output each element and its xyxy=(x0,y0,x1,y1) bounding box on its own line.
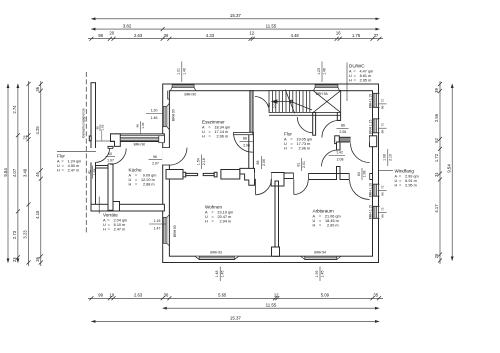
BRH labels xyxy=(134,92,373,254)
room label Wohnen xyxy=(205,204,233,223)
svg-text:A = 18.34 qm: A = 18.34 qm xyxy=(202,126,230,130)
svg-text:Flur: Flur xyxy=(57,153,65,158)
svg-text:15.37: 15.37 xyxy=(230,316,242,321)
svg-text:12: 12 xyxy=(249,31,254,36)
svg-text:1.45: 1.45 xyxy=(221,271,225,278)
svg-text:2.74: 2.74 xyxy=(12,105,17,114)
entry flur top thin wall xyxy=(96,140,111,142)
svg-text:H = 2.88 m: H = 2.88 m xyxy=(129,182,155,186)
dimension chain left D (detail) xyxy=(35,81,43,266)
svg-text:72: 72 xyxy=(380,207,384,211)
pilaster on west wall xyxy=(89,136,91,141)
window W3 Esszimmer west xyxy=(163,104,169,130)
svg-text:U = 20.47 m: U = 20.47 m xyxy=(205,215,231,219)
opening Flur to Arbeitsraum xyxy=(294,172,308,180)
svg-text:80: 80 xyxy=(95,126,99,130)
wall Flur south segment b xyxy=(309,174,337,180)
svg-text:U = 17.73 m: U = 17.73 m xyxy=(284,142,310,146)
door Esszimmer to Flur (upper) arc xyxy=(255,96,270,111)
svg-text:H = 2.95 m: H = 2.95 m xyxy=(349,78,371,82)
svg-text:5.65: 5.65 xyxy=(218,293,227,298)
opening Kueche to Esszimmer xyxy=(162,148,170,166)
door DU/WC south into Windfang arc xyxy=(351,143,370,162)
svg-text:BRH 1.15: BRH 1.15 xyxy=(369,205,373,219)
door arcs and leaves xyxy=(95,96,370,199)
dims door Esszimmer upper xyxy=(267,98,277,112)
opening entry door west wall xyxy=(91,148,97,162)
svg-text:1.23: 1.23 xyxy=(317,68,321,75)
svg-text:1.15: 1.15 xyxy=(154,219,161,223)
svg-text:2.08: 2.08 xyxy=(337,158,344,162)
svg-text:3.82: 3.82 xyxy=(123,23,132,28)
svg-text:2.06: 2.06 xyxy=(243,143,250,147)
wall DU/WC west xyxy=(337,91,340,121)
window W8 DU/WC east 1 xyxy=(373,93,380,107)
dims window W11 exterior xyxy=(378,207,387,218)
wall Windfang south segments xyxy=(340,174,349,180)
room label Esszimmer xyxy=(202,119,230,138)
svg-text:3.23: 3.23 xyxy=(23,230,28,239)
dims window W3 xyxy=(146,108,163,120)
dims partition opening xyxy=(197,155,207,170)
svg-text:11.55: 11.55 xyxy=(266,302,277,307)
svg-text:U = 6.10 m: U = 6.10 m xyxy=(103,223,125,227)
svg-text:BRH 94: BRH 94 xyxy=(314,250,326,254)
svg-text:BRH 93: BRH 93 xyxy=(210,250,222,254)
svg-text:1.40: 1.40 xyxy=(182,68,186,75)
svg-text:41: 41 xyxy=(87,170,91,174)
wall Windfang west lower xyxy=(337,167,341,174)
dimension chain top row 1 (15.37) xyxy=(91,13,379,19)
opening DU/WC south wall door xyxy=(351,137,370,143)
svg-text:1.05: 1.05 xyxy=(100,124,104,130)
svg-text:U = 4.50 m: U = 4.50 m xyxy=(57,164,79,168)
opening Flur to Wohnen xyxy=(255,172,271,179)
room label Vorraete with leader xyxy=(103,212,127,231)
svg-text:H = 2.47 m: H = 2.47 m xyxy=(57,168,79,172)
stair landing diagonals xyxy=(313,91,340,113)
wall Wohnen/Arbeitsraum xyxy=(275,186,279,256)
wall Wohnen/Arbeitsraum foot block xyxy=(272,247,280,256)
svg-text:2.01: 2.01 xyxy=(273,102,277,109)
svg-text:2.73: 2.73 xyxy=(12,230,17,239)
svg-text:U = 17.14 m: U = 17.14 m xyxy=(202,130,228,134)
svg-text:21: 21 xyxy=(23,134,28,139)
partition thick east part xyxy=(221,170,240,180)
svg-text:4.17: 4.17 xyxy=(434,204,439,213)
door Flur to Windfang arc xyxy=(322,150,339,167)
svg-text:72: 72 xyxy=(380,185,384,189)
svg-text:1.39: 1.39 xyxy=(315,271,319,278)
svg-text:9.54: 9.54 xyxy=(446,164,451,173)
svg-text:A = 4.47 qm: A = 4.47 qm xyxy=(349,70,373,74)
svg-text:A = 1.24 qm: A = 1.24 qm xyxy=(57,160,81,164)
dims door Windfang-Arbeitsraum xyxy=(357,168,367,180)
small opening dimension labels xyxy=(87,62,392,282)
svg-text:86: 86 xyxy=(136,124,140,128)
svg-text:1.21: 1.21 xyxy=(177,68,181,75)
svg-text:5.09: 5.09 xyxy=(321,293,330,298)
svg-text:36: 36 xyxy=(35,256,40,261)
dims door Esszimmer lower xyxy=(240,137,254,148)
svg-text:2.06: 2.06 xyxy=(339,130,346,134)
dims door Flur-Windfang xyxy=(329,151,346,162)
dims door DU/WC xyxy=(337,124,349,135)
door entry (outside into small Flur) xyxy=(95,148,109,162)
svg-text:1.47: 1.47 xyxy=(154,227,161,231)
wall Vorraete north (thin) xyxy=(96,166,109,169)
svg-text:99: 99 xyxy=(98,293,103,298)
window W9 DU/WC east 2 xyxy=(373,119,380,133)
svg-text:Wohnen: Wohnen xyxy=(205,204,222,209)
svg-text:3.49: 3.49 xyxy=(23,168,28,177)
svg-text:88: 88 xyxy=(380,105,384,109)
building outline outer xyxy=(163,84,379,263)
chimney block 1 xyxy=(240,168,255,185)
wall DU/WC south dark band xyxy=(337,137,352,142)
door Kueche to Esszimmer arc xyxy=(170,148,188,166)
svg-text:1.46: 1.46 xyxy=(323,68,327,75)
window W5 Kueche north xyxy=(120,136,159,141)
svg-text:37: 37 xyxy=(374,33,379,38)
svg-text:BRH 90: BRH 90 xyxy=(134,143,146,147)
svg-text:36: 36 xyxy=(35,86,40,91)
window W11 Arbeitsraum east 2 xyxy=(373,206,380,218)
svg-text:72: 72 xyxy=(380,123,384,127)
dims window W9 exterior xyxy=(378,123,387,134)
corner notch NW xyxy=(168,91,170,99)
window W1 Esszimmer north xyxy=(171,85,196,91)
svg-text:96: 96 xyxy=(153,155,157,159)
door DU/WC leaf+arc xyxy=(322,120,339,137)
window W4 Wohnen west xyxy=(163,215,169,246)
svg-text:4.15: 4.15 xyxy=(35,210,40,219)
svg-text:BRH 90: BRH 90 xyxy=(173,225,177,237)
svg-text:H = 2.90 m: H = 2.90 m xyxy=(313,223,339,227)
svg-text:4.07: 4.07 xyxy=(12,168,17,177)
room label Flur xyxy=(284,131,312,150)
dims window W10 exterior xyxy=(378,185,387,196)
chimney block 2 xyxy=(271,173,284,187)
svg-text:86: 86 xyxy=(243,137,247,141)
svg-text:1.20: 1.20 xyxy=(151,108,158,112)
door Flur to Arbeitsraum leaf+arc xyxy=(293,179,295,194)
svg-text:2.56: 2.56 xyxy=(434,113,439,122)
svg-text:23: 23 xyxy=(12,257,17,262)
dims window W7 xyxy=(315,267,325,282)
door small flur to Kueche arc xyxy=(110,148,126,164)
svg-text:36: 36 xyxy=(164,293,169,298)
svg-text:35: 35 xyxy=(373,293,378,298)
svg-text:4.48: 4.48 xyxy=(291,33,300,38)
door Esszimmer to Flur (lower) leaf xyxy=(234,132,253,134)
windows xyxy=(120,85,379,260)
dims door Vorraete xyxy=(87,166,97,179)
svg-text:1.97: 1.97 xyxy=(107,158,114,162)
svg-text:2.07: 2.07 xyxy=(152,162,159,166)
svg-text:84: 84 xyxy=(357,172,361,176)
wall Flur south segment a xyxy=(284,173,294,179)
svg-text:BRH 90: BRH 90 xyxy=(185,92,197,96)
stair break line xyxy=(285,90,295,114)
svg-text:81: 81 xyxy=(296,163,300,167)
svg-text:88: 88 xyxy=(256,161,260,165)
svg-text:4.33: 4.33 xyxy=(206,33,215,38)
svg-text:72: 72 xyxy=(380,99,384,103)
dims door Kueche-Esszimmer xyxy=(149,155,163,166)
svg-text:H = 2.96 m: H = 2.96 m xyxy=(202,134,228,138)
svg-text:BRH 9A: BRH 9A xyxy=(316,92,329,96)
partition Esszimmer/Wohnen thick west part xyxy=(166,170,183,180)
svg-text:2.18: 2.18 xyxy=(202,158,206,165)
door openings (wall gaps) xyxy=(91,137,370,180)
dimension chain bottom row 1 (detail) xyxy=(88,293,383,301)
door Flur to Wohnen leaf+arc xyxy=(255,179,257,195)
dims annex corner xyxy=(95,124,104,140)
svg-text:86: 86 xyxy=(380,192,384,196)
svg-text:1.05: 1.05 xyxy=(141,122,145,128)
dims door Flur-Wohnen xyxy=(256,156,266,169)
svg-text:1.46: 1.46 xyxy=(151,116,158,120)
dimension chain top row 2 (3.82 / 11.55) xyxy=(91,23,379,31)
dimension chain left A total (9.54) xyxy=(3,84,8,263)
dimension chain bottom row 2 (11.55) xyxy=(163,302,379,308)
svg-text:1.42: 1.42 xyxy=(336,151,343,155)
dimension chain left B (2.74/4.07/2.73) xyxy=(12,84,20,263)
svg-text:19: 19 xyxy=(109,293,114,298)
dims door entry xyxy=(106,152,116,162)
svg-text:Esszimmer: Esszimmer xyxy=(202,119,225,124)
svg-text:15.37: 15.37 xyxy=(230,13,242,18)
dims door Flur-Arbeitsraum xyxy=(296,158,306,171)
svg-text:1.75: 1.75 xyxy=(352,33,361,38)
svg-text:1.45: 1.45 xyxy=(321,271,325,278)
block at DU/WC south west end xyxy=(335,136,340,144)
svg-text:39: 39 xyxy=(434,88,439,93)
svg-text:9.54: 9.54 xyxy=(3,168,8,177)
svg-text:A = 19.05 qm: A = 19.05 qm xyxy=(284,138,312,142)
svg-text:81: 81 xyxy=(267,103,271,107)
stair walking line xyxy=(272,102,312,111)
dims window W8 exterior xyxy=(378,99,387,110)
door Windfang to Arbeitsraum arc xyxy=(350,180,370,200)
svg-text:H = 2.94 m: H = 2.94 m xyxy=(205,219,231,223)
Vorraete SE corner block xyxy=(113,202,120,212)
annex west wall xyxy=(91,83,96,211)
svg-text:36: 36 xyxy=(164,33,169,38)
annex north wall west pier (stepped) xyxy=(111,134,121,147)
window W7 Arbeitsraum south xyxy=(301,256,341,259)
svg-text:BRH 1.15: BRH 1.15 xyxy=(369,120,373,134)
boundary dashed line xyxy=(85,72,87,234)
svg-text:2.63: 2.63 xyxy=(134,33,143,38)
svg-text:46: 46 xyxy=(35,172,40,177)
svg-text:60: 60 xyxy=(108,152,112,156)
room label Kueche xyxy=(129,167,157,186)
svg-text:1.98: 1.98 xyxy=(363,171,367,178)
svg-text:Küche: Küche xyxy=(129,167,142,172)
svg-text:A = 2.04 qm: A = 2.04 qm xyxy=(103,219,127,223)
window W5 east pier xyxy=(159,136,165,143)
dimension chain top row 3 (detail) xyxy=(88,31,383,41)
wall Esszimmer east lower xyxy=(249,132,254,170)
svg-text:16: 16 xyxy=(336,31,341,36)
window W10 Arbeitsraum east 1 xyxy=(373,184,380,196)
staircase xyxy=(269,90,341,116)
svg-text:DU/WC: DU/WC xyxy=(349,63,365,68)
room label Windfang with leader xyxy=(395,168,419,187)
dimension chain left C (21/3.49) xyxy=(23,81,31,266)
wall entry flur / Vorraete east xyxy=(108,146,113,210)
svg-text:52: 52 xyxy=(434,138,439,143)
dims entrance door east xyxy=(383,149,393,166)
svg-text:2.19: 2.19 xyxy=(388,154,392,161)
svg-text:Flur: Flur xyxy=(284,131,292,136)
svg-text:2.06: 2.06 xyxy=(262,159,266,166)
room label small Flur with leader xyxy=(57,153,81,172)
svg-text:1.98: 1.98 xyxy=(93,169,97,176)
svg-text:12: 12 xyxy=(274,293,279,298)
dims window W4 xyxy=(149,219,166,231)
svg-text:Vorräte: Vorräte xyxy=(103,212,118,217)
svg-text:98: 98 xyxy=(98,33,103,38)
annex south wall xyxy=(91,204,164,211)
svg-text:20: 20 xyxy=(109,31,114,36)
svg-text:U = 18.45 m: U = 18.45 m xyxy=(313,219,339,223)
dimension chain bottom row 3 (15.37) xyxy=(91,316,379,322)
svg-text:Arbtsraum: Arbtsraum xyxy=(313,208,334,213)
svg-text:Gemarkungsgrenze: Gemarkungsgrenze xyxy=(82,108,86,138)
main interior envelope xyxy=(169,91,372,257)
door under stairs arc xyxy=(297,117,313,133)
svg-text:Windfang: Windfang xyxy=(395,168,415,173)
svg-text:H = 2.96 m: H = 2.96 m xyxy=(284,146,310,150)
partition thin leaf west xyxy=(183,172,198,177)
wall Windfang west upper xyxy=(337,142,341,150)
svg-text:BRH 1.10: BRH 1.10 xyxy=(369,94,373,108)
svg-text:1.48: 1.48 xyxy=(215,271,219,278)
svg-text:H = 2.47 m: H = 2.47 m xyxy=(103,227,125,231)
svg-text:A = 21.06 qm: A = 21.06 qm xyxy=(313,215,341,219)
window W6 Wohnen south xyxy=(195,256,238,259)
svg-text:31: 31 xyxy=(434,172,439,177)
svg-text:A = 23.19 qm: A = 23.19 qm xyxy=(205,211,233,215)
dims window W1 xyxy=(177,62,187,83)
svg-text:25: 25 xyxy=(434,253,439,258)
svg-text:11.55: 11.55 xyxy=(266,23,277,28)
svg-text:A = 2.99 qm: A = 2.99 qm xyxy=(395,175,419,179)
dimension chain right inner (detail) xyxy=(434,81,442,264)
svg-text:U = 6.91 m: U = 6.91 m xyxy=(395,179,417,183)
window W2 stairwell north xyxy=(314,85,340,91)
annex north wall xyxy=(111,134,165,142)
dims window W2 xyxy=(317,62,327,83)
svg-text:1.72: 1.72 xyxy=(434,153,439,162)
dims window W6 xyxy=(215,267,225,282)
opening Windfang to Arbeitsraum xyxy=(350,173,370,180)
svg-text:1.08: 1.08 xyxy=(383,154,387,161)
svg-text:A = 9.09 qm: A = 9.09 qm xyxy=(129,174,157,178)
svg-text:2.63: 2.63 xyxy=(134,293,143,298)
svg-text:86: 86 xyxy=(380,214,384,218)
svg-text:U = 8.61 m: U = 8.61 m xyxy=(349,74,371,78)
dimension chain right outer (9.54) xyxy=(446,84,452,261)
svg-text:BRH 1.10: BRH 1.10 xyxy=(369,183,373,197)
svg-text:86: 86 xyxy=(341,124,345,128)
corner block DU/WC south east xyxy=(370,136,377,147)
partition thin leaf east xyxy=(203,172,217,177)
svg-text:2.01: 2.01 xyxy=(302,161,306,168)
opening entry flur to Kueche xyxy=(108,148,114,163)
room label Arbeitsraum xyxy=(313,208,341,227)
svg-text:4.25: 4.25 xyxy=(35,126,40,135)
svg-text:BRH 90: BRH 90 xyxy=(172,109,176,121)
wall under stairs xyxy=(313,112,316,135)
svg-text:U = 12.20 m: U = 12.20 m xyxy=(129,178,155,182)
svg-text:1.54: 1.54 xyxy=(197,158,201,165)
wall Esszimmer east upper (hatched shaft) xyxy=(250,91,253,133)
room label DU/WC with leader xyxy=(349,63,373,82)
svg-text:88: 88 xyxy=(380,130,384,134)
svg-text:H = 2.95 m: H = 2.95 m xyxy=(395,183,417,187)
